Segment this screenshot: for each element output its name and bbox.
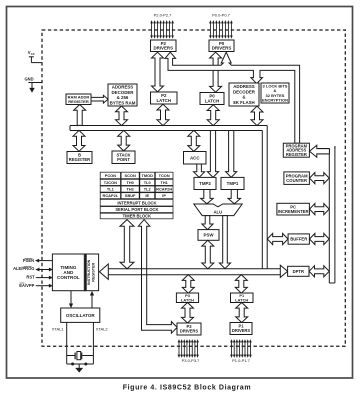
svg-text:IP: IP bbox=[162, 193, 166, 198]
svg-text:P1.0-P1.7: P1.0-P1.7 bbox=[232, 358, 251, 363]
block P3 drivers bbox=[177, 323, 201, 335]
crystal Y1 bbox=[67, 352, 94, 360]
svg-text:SERIAL PORT BLOCK: SERIAL PORT BLOCK bbox=[115, 207, 158, 212]
wire ACC to TMP2 bbox=[194, 164, 205, 177]
signal EA/VPP bbox=[19, 283, 52, 288]
block B register bbox=[67, 152, 92, 164]
arrow RAM addr to decoder bbox=[91, 95, 108, 103]
Vcc supply pin bbox=[28, 50, 42, 63]
signal ALE/PROG bbox=[13, 266, 52, 271]
bus arrow DPTR right bbox=[309, 266, 329, 277]
arrow bus to program address register bbox=[310, 145, 330, 157]
svg-text:XTAL1: XTAL1 bbox=[52, 326, 65, 331]
junction dot right bbox=[84, 363, 87, 366]
svg-text:REGISTER: REGISTER bbox=[92, 263, 96, 282]
svg-text:CONTROL: CONTROL bbox=[57, 275, 80, 280]
main internal bus (lower bar) bbox=[99, 264, 287, 279]
svg-text:BUFFER: BUFFER bbox=[290, 237, 307, 242]
svg-text:OSCILLATOR: OSCILLATOR bbox=[66, 313, 96, 318]
svg-text:TL2: TL2 bbox=[144, 187, 152, 192]
bus arrow stack pointer bbox=[118, 130, 130, 151]
wire crystal bottom bbox=[67, 363, 94, 365]
svg-text:REGISTER: REGISTER bbox=[69, 157, 90, 162]
svg-text:POINT: POINT bbox=[117, 157, 130, 162]
GND pin bbox=[24, 76, 42, 92]
bus arrow to RAM address register bbox=[74, 105, 86, 126]
label XTAL1 bbox=[52, 326, 65, 331]
wire XTAL2 bbox=[92, 322, 94, 364]
bus arrow flash decoder bbox=[251, 106, 263, 125]
bus arrow buffer left bbox=[267, 233, 288, 244]
block address decoder / 8K flash bbox=[229, 83, 259, 106]
bus arrow buffer right bbox=[310, 233, 330, 244]
svg-text:PSW: PSW bbox=[203, 232, 214, 237]
port P3 pins bbox=[178, 340, 199, 358]
bus arrow P0 drivers-P0 latch bbox=[210, 52, 222, 92]
block PSW bbox=[198, 230, 219, 241]
svg-text:IE: IE bbox=[145, 193, 149, 198]
svg-text:ACC: ACC bbox=[190, 155, 200, 160]
block oscillator bbox=[61, 308, 100, 322]
svg-text:ALU: ALU bbox=[213, 210, 222, 215]
bus arrow P3 latch bbox=[182, 275, 194, 294]
svg-text:DRIVERS: DRIVERS bbox=[212, 46, 232, 51]
label P2.0-P2.7 bbox=[154, 13, 173, 18]
bus arrow B register bbox=[73, 130, 85, 151]
svg-text:INTERRUPT BLOCK: INTERRUPT BLOCK bbox=[117, 200, 156, 205]
block buffer bbox=[288, 234, 309, 244]
wire XTAL1 bbox=[66, 322, 68, 364]
svg-text:TMP2: TMP2 bbox=[199, 181, 211, 186]
block P0 drivers bbox=[209, 40, 234, 52]
svg-text:XTAL2: XTAL2 bbox=[96, 326, 109, 331]
wire TMP1 to ALU bbox=[228, 190, 241, 204]
svg-text:RCAP2L: RCAP2L bbox=[103, 193, 119, 198]
svg-text:DRIVERS: DRIVERS bbox=[232, 328, 250, 333]
block ACC bbox=[184, 152, 207, 165]
svg-text:DRIVERS: DRIVERS bbox=[180, 329, 198, 334]
svg-text:SCON: SCON bbox=[125, 173, 136, 178]
svg-text:INCREMENTER: INCREMENTER bbox=[278, 209, 309, 214]
wire oscillator to instruction register bbox=[90, 291, 94, 308]
bus arrow P3 latch-P3 drivers bbox=[182, 303, 194, 324]
svg-text:TL1: TL1 bbox=[107, 187, 115, 192]
bus arrow P1 latch bbox=[235, 275, 247, 294]
junction dot left bbox=[71, 363, 74, 366]
svg-text:Figure 4. IS89C52 Block Diagr: Figure 4. IS89C52 Block Diagram bbox=[123, 385, 252, 392]
chip boundary (dashed) bbox=[42, 30, 345, 346]
svg-text:LATCH: LATCH bbox=[205, 98, 220, 103]
svg-text:LATCH: LATCH bbox=[181, 297, 194, 302]
svg-text:ALE/PROG: ALE/PROG bbox=[13, 266, 34, 271]
svg-text:GND: GND bbox=[24, 76, 33, 81]
wire TMP2 to ALU bbox=[201, 190, 214, 204]
svg-text:REGISTER: REGISTER bbox=[68, 99, 89, 104]
svg-text:P0.0-P0.7: P0.0-P0.7 bbox=[212, 13, 231, 18]
svg-text:PSEN: PSEN bbox=[23, 258, 34, 263]
svg-text:8K FLASH: 8K FLASH bbox=[233, 100, 254, 105]
svg-text:P3.0-P3.7: P3.0-P3.7 bbox=[182, 358, 201, 363]
svg-text:TL0: TL0 bbox=[144, 180, 151, 185]
bus arrow PC incrementer bbox=[310, 204, 330, 215]
bus arrow SFR table bbox=[120, 220, 134, 269]
right program bus bar bbox=[318, 146, 335, 283]
label P3.0-P3.7 bbox=[182, 358, 201, 363]
svg-text:TMP1: TMP1 bbox=[227, 181, 239, 186]
bus arrow program counter bbox=[310, 173, 330, 184]
ground bbox=[76, 364, 83, 372]
svg-text:REGISTER: REGISTER bbox=[286, 152, 307, 157]
svg-text:T2CON: T2CON bbox=[104, 180, 117, 185]
bus: instruction/address channel (drivers-flash-program register) bbox=[165, 52, 300, 143]
caption bbox=[123, 385, 252, 392]
block P0 latch bbox=[200, 93, 224, 105]
bus arrow P2 drivers-P2 latch bbox=[152, 52, 164, 92]
wire ALU to lower bus bbox=[219, 216, 230, 269]
svg-text:TCON: TCON bbox=[159, 173, 170, 178]
block TMP1 bbox=[221, 177, 244, 189]
main internal bus (upper bar) bbox=[70, 126, 267, 269]
svg-text:COUNTER: COUNTER bbox=[286, 178, 307, 183]
block instruction register bbox=[84, 254, 98, 291]
block TMP2 bbox=[194, 177, 216, 189]
block P1 latch bbox=[231, 293, 254, 303]
bus arrow P2 latch bbox=[157, 104, 169, 125]
block program address register bbox=[283, 143, 309, 157]
special function registers table bbox=[100, 172, 173, 219]
svg-text:TH2: TH2 bbox=[126, 187, 134, 192]
svg-text:PCON: PCON bbox=[105, 173, 116, 178]
svg-text:LATCH: LATCH bbox=[235, 297, 248, 302]
svg-text:DPTR: DPTR bbox=[293, 269, 304, 274]
signal PSEN bbox=[23, 258, 52, 263]
block timing and control bbox=[52, 254, 84, 291]
bus arrow RAM decoder bbox=[116, 106, 128, 126]
block 3 lock bits / 32 bytes encryption bbox=[261, 83, 289, 103]
port P2 pins bbox=[150, 21, 173, 39]
svg-text:P2.0-P2.7: P2.0-P2.7 bbox=[154, 13, 173, 18]
svg-text:RST: RST bbox=[26, 275, 35, 280]
svg-text:DRIVERS: DRIVERS bbox=[153, 46, 173, 51]
block DPTR bbox=[288, 266, 309, 276]
ALU bbox=[194, 204, 242, 216]
wire bus to TMP1 bbox=[226, 131, 237, 178]
wire ALU to PSW bbox=[202, 216, 213, 230]
block address decoder / 256 bytes RAM bbox=[108, 84, 137, 106]
svg-text:INSTRUCTION: INSTRUCTION bbox=[87, 259, 91, 285]
signal RST bbox=[26, 275, 52, 280]
label XTAL2 bbox=[96, 326, 109, 331]
block RAM address register bbox=[66, 94, 91, 105]
port P1 pins bbox=[230, 340, 251, 358]
bus arrow P1 latch-P1 drivers bbox=[236, 303, 248, 323]
wire bus to TMP2 bbox=[207, 131, 218, 178]
wire SFR table to P3 drivers bbox=[138, 220, 177, 334]
block P2 latch bbox=[151, 92, 178, 104]
bus arrow ACC bbox=[188, 130, 200, 151]
label P1.0-P1.7 bbox=[232, 358, 251, 363]
svg-text:CC: CC bbox=[31, 52, 35, 56]
block PC incrementer bbox=[277, 203, 310, 215]
svg-text:RCAP2H: RCAP2H bbox=[156, 187, 172, 192]
svg-text:LATCH: LATCH bbox=[156, 98, 171, 103]
bus arrow PSW bbox=[202, 240, 214, 268]
svg-text:BYTES RAM: BYTES RAM bbox=[110, 100, 136, 105]
svg-text:TIMER BLOCK: TIMER BLOCK bbox=[123, 214, 151, 219]
svg-text:TMOD: TMOD bbox=[142, 173, 154, 178]
svg-text:TH0: TH0 bbox=[126, 180, 133, 185]
svg-text:TH1: TH1 bbox=[160, 180, 168, 185]
svg-text:ENCRYPTION: ENCRYPTION bbox=[262, 97, 288, 102]
block P3 latch bbox=[176, 293, 198, 303]
wire timing to oscillator bbox=[69, 291, 73, 308]
svg-text:SBUF: SBUF bbox=[125, 193, 136, 198]
block program counter bbox=[284, 172, 310, 185]
bus arrow P0 latch bbox=[207, 105, 219, 126]
label P0.0-P0.7 bbox=[212, 13, 231, 18]
block P2 drivers bbox=[151, 40, 177, 52]
block P1 drivers bbox=[230, 323, 252, 335]
svg-text:EA/VPP: EA/VPP bbox=[19, 283, 34, 288]
port P0 pins bbox=[209, 21, 232, 39]
block stack pointer bbox=[112, 151, 135, 164]
